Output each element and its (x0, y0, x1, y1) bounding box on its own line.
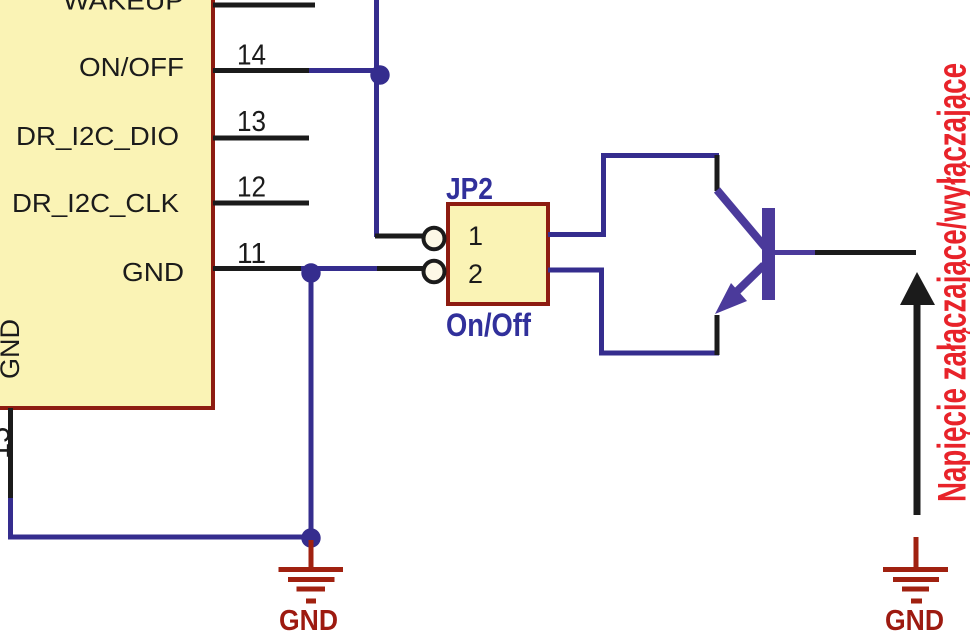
transistor Q1 emitter pin (black) (715, 315, 720, 355)
ground GND left bar2 (288, 577, 335, 582)
transistor Q1 collector pin (black) (715, 155, 720, 191)
svg-text:On/Off: On/Off (446, 307, 531, 343)
svg-text:GND: GND (122, 257, 184, 287)
IC U1 body (0, 0, 213, 408)
pin 14 wire (213, 68, 309, 73)
transistor Q1 emitter arrowhead (715, 283, 747, 314)
ground GND right bar4 (911, 599, 922, 604)
wire net ON/OFF vertical from top (374, 0, 379, 237)
svg-text:WAKEUP: WAKEUP (63, 0, 184, 16)
wire net ON/OFF horizontal to junction (309, 68, 380, 73)
svg-text:GND: GND (885, 605, 944, 631)
wire black stub to JP2 pin 1 (375, 234, 423, 239)
junction dot bottom (301, 528, 320, 547)
wire horizontal bottom (599, 351, 719, 356)
pin 12 wire (213, 201, 309, 206)
transistor Q1 base bar (762, 208, 775, 300)
wire net GND vertical down (309, 273, 314, 537)
svg-text:12: 12 (237, 172, 266, 204)
jumper JP2 body (448, 204, 548, 304)
wire JP2 pin1 to transistor: horizontal at pin1 (548, 232, 604, 237)
svg-text:15: 15 (0, 427, 16, 459)
pin 15 wire (bottom) (8, 408, 13, 501)
ground GND left bar3 (297, 587, 326, 592)
svg-text:14: 14 (237, 40, 266, 72)
svg-text:11: 11 (237, 238, 266, 270)
svg-text:ON/OFF: ON/OFF (79, 52, 184, 82)
wire net GND bottom horizontal (8, 535, 311, 540)
wire vertical up (601, 153, 606, 237)
wire black stub to JP2 pin 2 (377, 266, 423, 271)
svg-text:Napięcie załączające/wyłączają: Napięcie załączające/wyłączające (931, 63, 970, 502)
svg-text:2: 2 (468, 259, 483, 289)
transistor Q1 collector diagonal (717, 190, 765, 247)
JP2 pad circle 2 (424, 261, 445, 283)
junction dot GND pin 11 (301, 263, 320, 282)
pin WAKEUP wire (213, 3, 315, 8)
wire net blue on bottom-left pin (8, 498, 13, 539)
ground GND left bar1 (279, 567, 344, 572)
wire vertical down (599, 268, 604, 356)
pin 13 wire (213, 136, 309, 141)
ground GND right bar1 (883, 567, 948, 572)
wire output black to right (815, 250, 916, 255)
svg-text:1: 1 (468, 221, 483, 251)
arrow up (voltage) shaft (914, 302, 921, 515)
svg-text:JP2: JP2 (446, 171, 493, 206)
wire horizontal top (601, 153, 719, 158)
ground GND right bar3 (902, 587, 929, 592)
ground GND right bar2 (893, 577, 939, 582)
junction dot ON/OFF (370, 65, 389, 84)
ground GND left bar4 (306, 599, 316, 604)
transistor Q1 emitter diagonal (726, 265, 764, 302)
wire JP2 pin2 to transistor: horizontal at pin2 (548, 268, 604, 273)
pin 11 wire (213, 266, 301, 271)
JP2 pad circle 1 (424, 228, 445, 250)
svg-text:13: 13 (237, 106, 266, 138)
svg-text:GND: GND (0, 319, 25, 379)
arrow up head (900, 272, 935, 305)
svg-text:DR_I2C_DIO: DR_I2C_DIO (16, 121, 179, 151)
ground GND left stub (309, 540, 314, 568)
svg-text:DR_I2C_CLK: DR_I2C_CLK (12, 188, 180, 218)
svg-text:GND: GND (279, 605, 338, 631)
wire net GND: blue after pin 11 (301, 266, 377, 271)
transistor Q1 output stub (purple) (775, 250, 815, 255)
ground GND right stub (914, 537, 919, 568)
